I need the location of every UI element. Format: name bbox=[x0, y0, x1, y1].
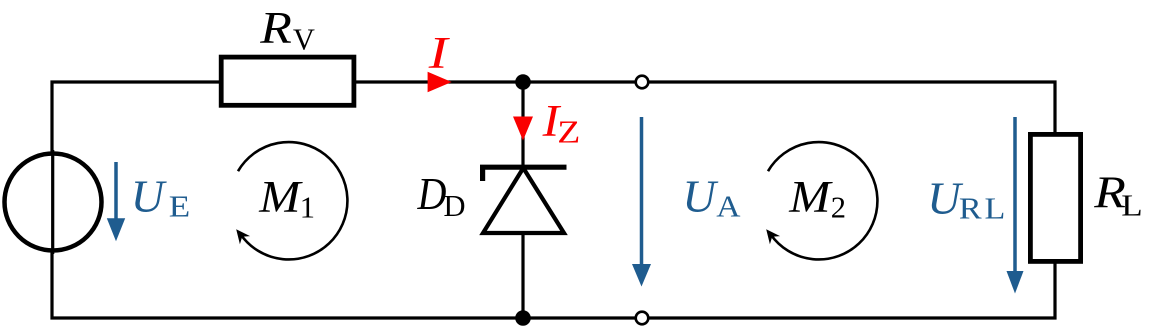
svg-text:U: U bbox=[682, 171, 719, 221]
svg-text:D: D bbox=[417, 170, 447, 220]
svg-text:1: 1 bbox=[300, 191, 315, 225]
svg-text:E: E bbox=[169, 191, 190, 224]
svg-text:M: M bbox=[788, 173, 833, 222]
svg-text:U: U bbox=[131, 171, 168, 221]
svg-text:2: 2 bbox=[831, 191, 846, 225]
svg-text:R: R bbox=[259, 4, 292, 53]
svg-text:M: M bbox=[258, 173, 303, 222]
svg-text:I: I bbox=[428, 28, 451, 78]
svg-text:V: V bbox=[293, 22, 315, 56]
svg-text:L: L bbox=[1121, 190, 1142, 223]
svg-text:Z: Z bbox=[557, 114, 580, 150]
svg-text:D: D bbox=[444, 189, 466, 223]
svg-text:RL: RL bbox=[959, 192, 1008, 226]
svg-text:A: A bbox=[716, 189, 740, 223]
